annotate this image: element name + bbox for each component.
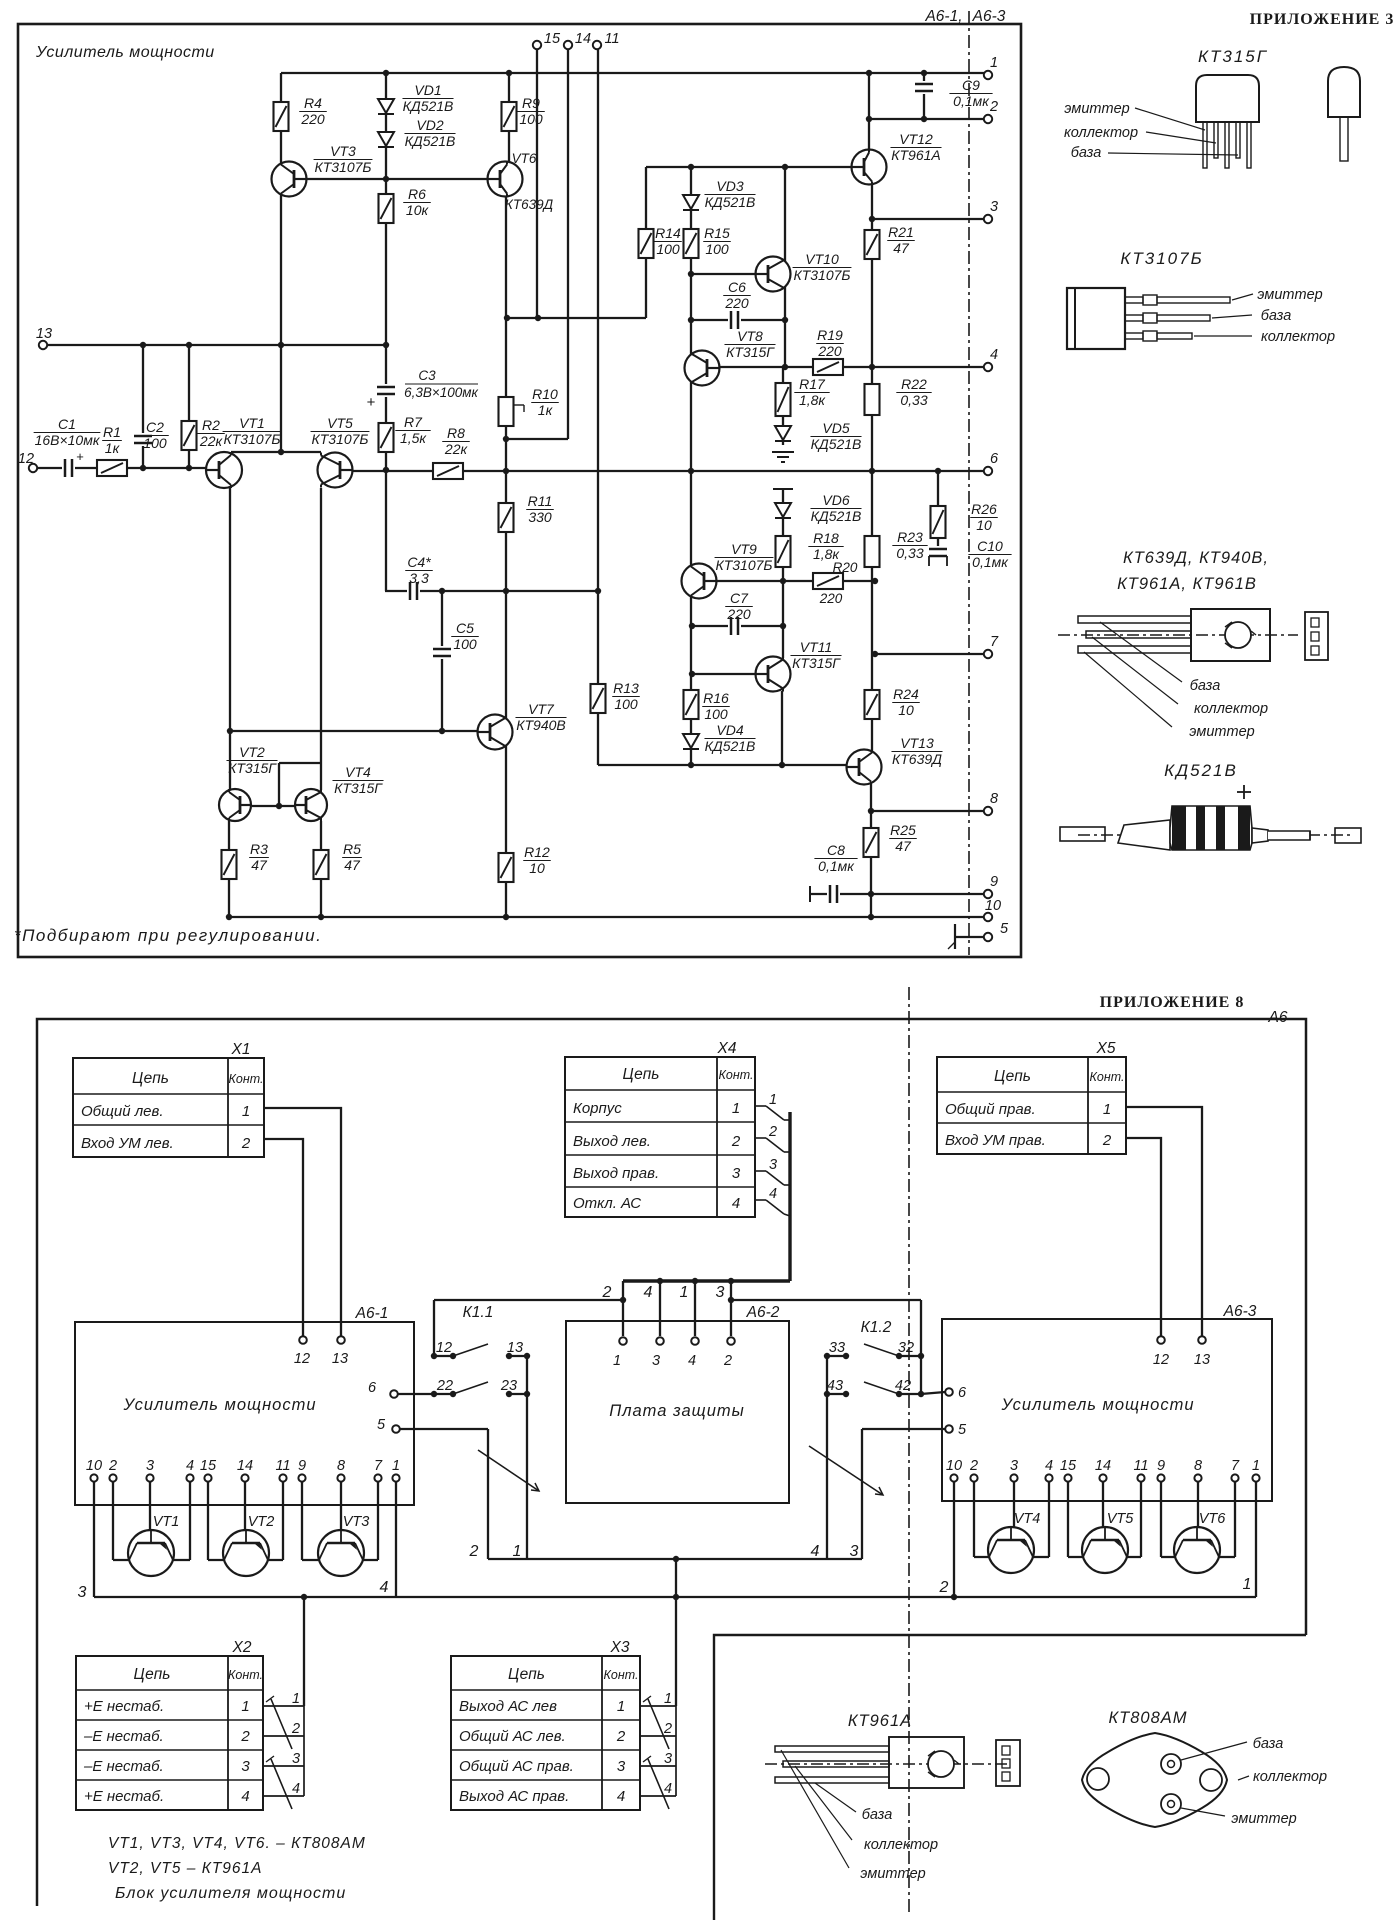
svg-text:3: 3 [241,1758,250,1775]
svg-text:Выход лев.: Выход лев. [573,1133,651,1150]
svg-text:R2: R2 [202,417,220,433]
svg-text:47: 47 [895,838,912,854]
svg-text:220: 220 [819,591,843,606]
svg-text:330: 330 [528,509,552,525]
svg-text:9: 9 [990,874,998,890]
wire input line node12 to VT1 base [37,467,206,469]
svg-text:ПРИЛОЖЕНИЕ 8: ПРИЛОЖЕНИЕ 8 [1100,994,1245,1011]
leader lines KT961A bottom [781,1750,849,1868]
svg-text:100: 100 [704,706,728,722]
svg-text:коллектор: коллектор [1261,329,1335,345]
wire VT9 base R20 line [716,580,875,582]
svg-text:3: 3 [146,1458,154,1474]
svg-text:R5: R5 [343,841,361,857]
svg-text:VT5: VT5 [327,415,353,431]
pin 13 on A6-3 [1198,1336,1206,1344]
svg-text:R14: R14 [655,225,681,241]
svg-text:4: 4 [769,1186,777,1202]
svg-text:1: 1 [769,1092,777,1108]
pin 11 terminal [593,41,601,49]
svg-text:3: 3 [1010,1458,1018,1474]
svg-text:Выход прав.: Выход прав. [573,1165,659,1182]
svg-text:13: 13 [1194,1352,1210,1368]
svg-text:+: + [76,449,84,464]
wire protection output bus [488,1558,862,1560]
svg-text:0,33: 0,33 [896,545,923,561]
svg-text:0,1мк: 0,1мк [972,554,1009,570]
svg-text:R22: R22 [901,376,927,392]
svg-text:КТ961А, КТ961В: КТ961А, КТ961В [1117,575,1257,593]
wire X1 pin2 to A6-1 pin12 [264,1139,303,1336]
svg-text:КТ315Г: КТ315Г [228,760,277,776]
transistor VT4 block [988,1527,1034,1573]
pin 13 on A6-1 [337,1336,345,1344]
svg-text:7: 7 [1231,1458,1240,1474]
svg-text:2: 2 [241,1135,251,1152]
resistor R10 [498,396,515,427]
svg-text:2: 2 [1102,1132,1112,1149]
svg-text:4: 4 [688,1353,696,1369]
transistor VT3 block [318,1530,364,1576]
pin 3 terminal [984,215,992,223]
svg-text:Корпус: Корпус [573,1100,622,1117]
pin 9 terminal [984,890,992,898]
terminal bar left of C8 [809,886,811,902]
svg-text:100: 100 [614,696,638,712]
svg-text:4: 4 [186,1458,194,1474]
wire VT12 emitter R21 R22 R23 R24 column [871,184,873,751]
wire pin14 drop [567,49,569,439]
svg-text:10: 10 [985,898,1001,914]
svg-text:2: 2 [469,1543,479,1560]
svg-text:5: 5 [1000,921,1009,937]
svg-text:VT1, VT3, VT4, VT6. – КТ808А: VT1, VT3, VT4, VT6. – КТ808АМ [108,1835,366,1852]
svg-text:13: 13 [332,1351,348,1367]
resistor R1 [96,459,128,477]
package KT961 side body [1191,609,1270,661]
svg-text:2: 2 [989,99,998,115]
svg-text:R9: R9 [522,95,540,111]
svg-text:3: 3 [990,199,998,215]
svg-text:Блок усилителя мощности: Блок усилителя мощности [115,1885,346,1902]
frame power amplifier schematic border [18,24,1021,957]
pin 12 on A6-1 [299,1336,307,1344]
svg-text:10: 10 [529,860,545,876]
svg-text:2: 2 [939,1579,949,1596]
svg-text:С3: С3 [418,368,436,383]
wire pin15 drop [536,49,538,318]
svg-text:7: 7 [990,634,999,650]
svg-text:8: 8 [1194,1458,1202,1474]
svg-text:КТ940В: КТ940В [516,717,566,733]
svg-text:А6-1: А6-1 [355,1305,389,1322]
svg-text:R13: R13 [613,680,639,696]
wire X5 pin1 to A6-3 pin13 [1126,1107,1202,1336]
wire R2 column [188,345,190,468]
package KT961A bottom leads [775,1746,889,1752]
wires to VT6 block transistor [1160,1482,1162,1557]
wire contact43 down to bus [826,1356,828,1559]
svg-text:42: 42 [895,1378,911,1394]
svg-text:КТ639Д, КТ940В,: КТ639Д, КТ940В, [1123,549,1269,567]
svg-text:эмиттер: эмиттер [1257,287,1322,303]
svg-text:С1: С1 [58,416,76,432]
wire R13 to VT13 base line [598,764,847,766]
svg-text:база: база [1190,678,1221,694]
connector fingers X4 [755,1105,766,1107]
svg-text:2: 2 [723,1353,732,1369]
block A6-3 Усилитель мощности [942,1319,1272,1501]
svg-text:1: 1 [1103,1101,1111,1118]
wire K1.1 12 up to bus2 [433,1300,435,1356]
svg-text:+: + [367,394,376,411]
capacitor C10 [927,546,949,559]
svg-text:VT1: VT1 [153,1514,180,1530]
resistor R3 [221,849,238,880]
resistor R17 [775,382,792,417]
wire X2 riser [303,1597,305,1706]
wire VD1 VD2 R6 C3 R7 column [385,73,387,591]
transistor VT4 [295,789,327,821]
svg-text:4: 4 [811,1543,820,1560]
svg-text:4: 4 [241,1788,249,1805]
wire top supply rail [281,72,984,74]
leader lines KT808AM [1181,1742,1247,1760]
wires to VT1 block transistor [112,1482,114,1560]
svg-text:VT4: VT4 [1014,1511,1041,1527]
svg-text:11: 11 [1133,1458,1148,1474]
transistor VT8 [685,351,720,386]
svg-text:13: 13 [507,1340,523,1356]
svg-text:КТ315Г: КТ315Г [334,780,383,796]
svg-text:Откл. АС: Откл. АС [573,1195,641,1212]
relay actuator arrow right [809,1446,883,1495]
svg-text:Усилитель мощности: Усилитель мощности [1001,1396,1195,1414]
relay actuator arrow left [478,1450,539,1491]
svg-text:Общий прав.: Общий прав. [945,1101,1036,1118]
resistor R5 [313,849,330,880]
resistor R2 [181,420,198,451]
wire riser right speaker [861,1429,863,1559]
svg-text:–Е нестаб.: –Е нестаб. [83,1758,164,1775]
svg-text:3: 3 [716,1284,725,1301]
capacitor C9 [913,81,935,94]
svg-text:1к: 1к [538,402,554,418]
wire R4 VT3 collector column [280,73,282,452]
svg-text:32: 32 [898,1340,914,1356]
svg-text:1: 1 [242,1103,250,1120]
svg-text:3: 3 [617,1758,626,1775]
svg-text:4: 4 [644,1284,653,1301]
relay K1.2 contact 33-32 [827,1355,846,1357]
svg-text:С10: С10 [977,538,1003,554]
svg-text:*Подбирают при регулировании.: *Подбирают при регулировании. [14,926,322,945]
svg-text:КТ3107Б: КТ3107Б [311,431,368,447]
wire R26 C10 column [937,471,939,552]
svg-text:R23: R23 [897,529,923,545]
svg-text:VD3: VD3 [716,178,743,194]
svg-text:12: 12 [294,1351,310,1367]
svg-text:3: 3 [78,1584,87,1601]
svg-text:Конт.: Конт. [228,1668,263,1682]
connector fingers X2 [263,1705,304,1707]
wire VT6 emitter R10 R11 VT7 R12 column [505,196,507,917]
resistor R16 [683,689,700,720]
leader lines KT961 pins [1100,622,1182,682]
wire VD6 R18 VT11 column [782,489,784,658]
pin 10 terminal [984,913,992,921]
svg-text:1: 1 [1252,1458,1260,1474]
resistor R9 [501,101,518,132]
wire R10 bottom to pin14 column [506,438,568,440]
svg-text:7: 7 [374,1458,383,1474]
svg-text:КТ961А: КТ961А [891,147,941,163]
wire pin7 line [875,653,984,655]
svg-text:КТ3107Б: КТ3107Б [223,431,280,447]
capacitor C3 [375,384,397,397]
svg-text:12: 12 [1153,1352,1169,1368]
wires to VT5 block transistor [1067,1482,1069,1557]
svg-text:+Е нестаб.: +Е нестаб. [84,1698,164,1715]
svg-text:220: 220 [726,606,751,622]
resistor R21 [864,229,881,260]
svg-text:VD4: VD4 [716,722,743,738]
svg-text:X3: X3 [610,1639,630,1656]
wire main speaker bus [94,1596,1256,1598]
svg-text:22к: 22к [199,433,224,449]
svg-text:Вход УМ прав.: Вход УМ прав. [945,1132,1046,1149]
diode VD2 [378,132,394,146]
svg-text:4: 4 [292,1781,300,1797]
package KT961A bottom centerline [765,1763,1010,1765]
svg-text:1: 1 [513,1543,522,1560]
svg-text:1: 1 [680,1284,689,1301]
wire pin3 line [872,218,984,220]
package KT315G side view [1328,67,1360,117]
svg-text:10к: 10к [406,202,430,218]
transistor VT5 [318,453,353,488]
svg-text:VD5: VD5 [822,420,849,436]
svg-text:R1: R1 [103,424,121,440]
svg-text:2: 2 [663,1721,672,1737]
wire C6 link [691,319,785,321]
svg-text:11: 11 [275,1458,290,1474]
wire R9 to VT6 column [508,73,510,163]
svg-text:R24: R24 [893,686,919,702]
svg-text:база: база [1261,308,1292,324]
svg-text:Цепь: Цепь [508,1666,545,1683]
svg-text:VT11: VT11 [800,639,832,655]
pin 6 terminal [984,467,992,475]
svg-text:Выход АС лев: Выход АС лев [459,1698,557,1715]
capacitor C6 [728,309,741,331]
wire pin6 A6-1 to contact 22 [398,1393,434,1395]
divider dash-dot bottom [908,987,910,1915]
package KT961 side centerline [1058,634,1298,636]
connector table X1 [73,1058,264,1157]
wire C4 feedback line [385,590,598,592]
package KT961 front view [1305,612,1328,660]
svg-text:0,1мк: 0,1мк [953,93,990,109]
frame bottom interconnect diagram [37,1019,1306,1906]
svg-text:С9: С9 [962,77,980,93]
svg-text:Общий АС лев.: Общий АС лев. [459,1728,566,1745]
svg-text:X4: X4 [717,1040,737,1057]
svg-text:22к: 22к [444,441,469,457]
capacitor C4 [407,580,420,602]
diode VD5 [775,426,791,440]
svg-text:R17: R17 [799,376,826,392]
pin 14 terminal [564,41,572,49]
resistor R24 [864,689,881,720]
svg-text:КТ315Г: КТ315Г [792,655,841,671]
svg-text:2: 2 [731,1133,741,1150]
wire VT13 emitter R25 column [870,784,872,917]
svg-text:6: 6 [958,1385,967,1401]
transistor VT2 block [223,1530,269,1576]
wire A6-3 pin10 drop [953,1482,955,1597]
wire contact42 to pin6 A6-3 [921,1392,945,1394]
svg-text:КД521В: КД521В [705,738,756,754]
svg-text:А6-1,: А6-1, [924,8,962,25]
resistor R19 [812,358,844,376]
wire VT2 emitter R3 column [228,821,230,917]
wire VT12 collector stub [868,73,870,150]
svg-text:1: 1 [617,1698,625,1715]
diode KD521V centerline [1078,834,1350,836]
svg-text:2: 2 [602,1284,612,1301]
svg-text:Конт.: Конт. [1090,1070,1125,1084]
transistor VT5 block [1082,1527,1128,1573]
block A6-1 Усилитель мощности [75,1322,414,1505]
svg-text:43: 43 [827,1378,843,1394]
svg-text:2: 2 [969,1458,978,1474]
svg-text:1: 1 [664,1691,672,1707]
svg-text:R20: R20 [833,560,858,575]
resistor R25 [863,827,880,858]
svg-text:3: 3 [292,1751,300,1767]
node 12 terminal [29,464,37,472]
svg-text:4: 4 [990,347,998,363]
svg-text:6: 6 [368,1380,377,1396]
svg-text:R16: R16 [703,690,729,706]
svg-text:16В×10мк: 16В×10мк [35,432,101,448]
svg-text:VT1: VT1 [239,415,265,431]
svg-text:R25: R25 [890,822,916,838]
ground below VD5 [772,451,794,453]
svg-text:10: 10 [946,1458,962,1474]
svg-text:К1.2: К1.2 [861,1319,892,1336]
svg-text:КД521В: КД521В [405,133,456,149]
svg-text:4: 4 [732,1195,740,1212]
diode VD3 [683,195,699,209]
connector table X3 [451,1656,640,1810]
svg-text:С7: С7 [730,590,749,606]
package KT808AM mounting holes [1087,1768,1109,1790]
resistor R15 [683,228,700,259]
svg-text:11: 11 [604,31,619,47]
svg-text:эмиттер: эмиттер [1064,101,1129,117]
svg-text:6: 6 [990,451,999,467]
svg-text:КД521В: КД521В [705,194,756,210]
svg-text:14: 14 [575,31,591,47]
svg-text:R11: R11 [528,493,553,509]
wire pin5 A6-1 right [400,1428,488,1430]
svg-text:3,3: 3,3 [409,570,429,586]
svg-text:Цепь: Цепь [132,1070,169,1087]
package KT808AM emitter pin [1161,1794,1181,1814]
svg-text:КТ808АМ: КТ808АМ [1108,1709,1187,1727]
svg-text:Усилитель мощности: Усилитель мощности [123,1396,317,1414]
svg-text:220: 220 [724,295,749,311]
resistor R7 [378,422,395,453]
wire bold bus to protection board [623,1279,790,1282]
svg-text:14: 14 [237,1458,253,1474]
svg-text:3: 3 [652,1353,660,1369]
diode VD6 [775,503,791,517]
svg-text:1: 1 [241,1698,249,1715]
svg-text:С2: С2 [146,419,164,435]
svg-text:К1.1: К1.1 [463,1304,494,1321]
svg-text:R7: R7 [404,414,423,430]
svg-text:КТ315Г: КТ315Г [726,344,775,360]
svg-text:0,33: 0,33 [900,392,927,408]
svg-text:2: 2 [108,1458,117,1474]
svg-text:15: 15 [1060,1458,1077,1474]
wire drops to A6-2 pins [622,1281,624,1336]
svg-text:3: 3 [664,1751,672,1767]
wire X5 pin2 to A6-3 pin12 [1126,1138,1161,1336]
relay K1.2 contact 43-42 [827,1393,846,1395]
svg-text:1,5к: 1,5к [400,430,427,446]
transistor VT1 [206,452,242,488]
pins on A6-2 [619,1337,627,1345]
svg-text:1: 1 [392,1458,400,1474]
svg-text:100: 100 [519,111,543,127]
svg-text:R8: R8 [447,425,465,441]
diode VD1 [378,99,394,113]
svg-text:С8: С8 [827,842,845,858]
svg-text:Общий лев.: Общий лев. [81,1103,164,1120]
resistor R23 [864,535,881,568]
wire VT2-VT4 base link [252,805,295,807]
svg-text:А6-2: А6-2 [746,1304,780,1321]
wire VT5 collector to VT4 [320,488,322,790]
svg-text:VT2, VT5 – К: VT2, VT5 – КТ961А [108,1860,263,1877]
capacitor C7 [728,615,741,637]
wire VT6 emitter to R14 branch horizontal [506,317,646,319]
svg-text:5: 5 [958,1422,967,1438]
svg-text:23: 23 [500,1378,517,1394]
wire A6-1 pin10 drop [93,1482,95,1597]
svg-text:база: база [1071,145,1102,161]
svg-text:1,8к: 1,8к [799,392,826,408]
svg-text:R18: R18 [813,530,839,546]
svg-text:9: 9 [298,1458,306,1474]
junction dots top section [383,70,389,76]
svg-text:С5: С5 [456,620,474,636]
package KT315G pins [1203,122,1207,168]
svg-text:5: 5 [377,1417,386,1433]
svg-text:VT10: VT10 [805,251,839,267]
transistor VT1 block [128,1530,174,1576]
svg-text:0,1мк: 0,1мк [818,858,855,874]
svg-text:220: 220 [300,111,325,127]
wire down to K1.2 contact 32 [920,1300,922,1394]
wire bus2 horizontal [434,1299,623,1301]
svg-text:R21: R21 [888,224,914,240]
wire C2 column [142,345,144,468]
